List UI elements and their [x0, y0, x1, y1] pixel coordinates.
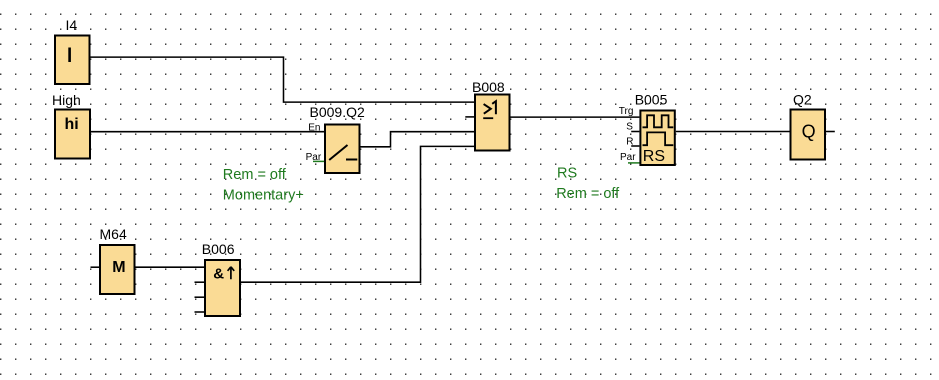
block B008 OR [475, 95, 510, 151]
wire I4 to B008 input1 [91, 57, 475, 102]
wire M64 out to B006 input1 [136, 266, 205, 268]
stub B008 input2 [465, 116, 474, 118]
svg-text:High: High [52, 92, 81, 108]
block B005 RS [640, 111, 674, 166]
block B009.Q2 [325, 125, 360, 174]
svg-text:Q: Q [802, 122, 816, 142]
svg-text:M64: M64 [100, 226, 127, 242]
svg-text:R: R [626, 137, 633, 148]
svg-text:Par: Par [620, 152, 636, 163]
svg-text:RS: RS [557, 166, 577, 182]
svg-text:hi: hi [65, 116, 79, 133]
stub B006 input2 [195, 281, 205, 283]
svg-text:M: M [112, 259, 125, 276]
I glyph [68, 48, 71, 63]
svg-text:En: En [308, 122, 320, 133]
input block hi (High) [55, 110, 90, 159]
svg-text:Momentary+: Momentary+ [223, 187, 304, 203]
stub B006 input4 [195, 311, 205, 313]
output block Q (Q2) [791, 110, 826, 160]
switch symbol [329, 145, 347, 160]
input block I (I4) [55, 36, 90, 85]
svg-text:Par: Par [306, 152, 322, 163]
svg-text:Trg: Trg [619, 106, 634, 117]
svg-text:S: S [626, 121, 633, 132]
pulse waveform bottom [643, 132, 674, 145]
block M64 [100, 245, 135, 294]
svg-text:&: & [213, 266, 224, 283]
svg-text:Rem = off: Rem = off [223, 167, 287, 183]
svg-text:Q2: Q2 [793, 92, 812, 108]
ge1 symbol [484, 104, 491, 114]
svg-text:B008: B008 [472, 79, 505, 95]
svg-text:I4: I4 [66, 17, 78, 33]
stub B005 R [631, 145, 639, 147]
wire B006 out to B008 input4 [241, 146, 474, 282]
stub B005 S [631, 131, 639, 133]
wire B009 out to B008 input3 [361, 132, 475, 147]
svg-text:B006: B006 [202, 241, 235, 257]
wire hi to B009 En [91, 131, 324, 133]
svg-text:B009.Q2: B009.Q2 [310, 104, 365, 120]
wire B005 out to Q2 [676, 131, 790, 133]
svg-text:Rem = off: Rem = off [556, 186, 620, 202]
pulse waveform top [643, 115, 674, 127]
block B006 AND-edge [205, 260, 240, 316]
svg-text:B005: B005 [635, 91, 668, 107]
svg-text:RS: RS [643, 148, 665, 165]
stub Q2 out [826, 131, 835, 133]
green par line B009 [313, 160, 325, 162]
wire B008 out to B005 Trg [511, 116, 640, 118]
stub M64 in [91, 266, 100, 268]
green par line B005 [628, 162, 640, 164]
stub B006 input3 [195, 296, 205, 298]
